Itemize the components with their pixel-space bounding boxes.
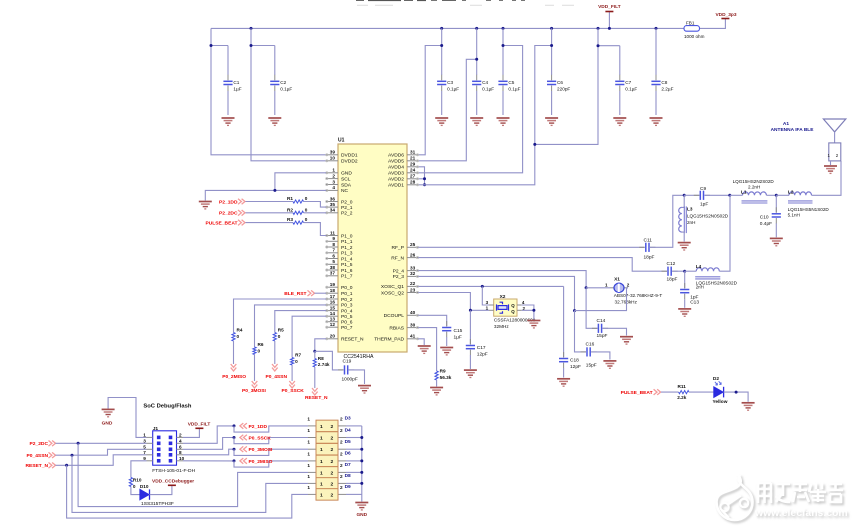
svg-text:R3: R3: [287, 217, 293, 222]
wire THERM_PAD to ground: [418, 339, 424, 345]
diode D10: [140, 489, 149, 499]
ground below LED: [742, 403, 755, 410]
svg-text:2: 2: [331, 481, 334, 487]
ground below C18: [557, 379, 570, 386]
svg-text:C6: C6: [557, 80, 563, 85]
svg-text:P0_5: P0_5: [341, 314, 353, 320]
svg-text:DVDD1: DVDD1: [341, 153, 358, 159]
svg-text:R7: R7: [295, 353, 301, 358]
svg-text:AVDD5: AVDD5: [388, 159, 404, 165]
svg-text:12pF: 12pF: [570, 364, 581, 370]
svg-text:NC: NC: [341, 188, 349, 194]
capacitor C2: [251, 45, 275, 47]
wire/node P0_3MOSI at J1 pin8: [183, 449, 234, 455]
svg-text:C15: C15: [454, 328, 463, 334]
svg-text:RBIAS: RBIAS: [389, 325, 404, 331]
svg-text:P1_3: P1_3: [341, 251, 353, 257]
svg-text:15pF: 15pF: [586, 363, 597, 369]
svg-text:R2: R2: [287, 207, 293, 212]
svg-text:33: 33: [410, 265, 416, 270]
svg-text:P2_2DC: P2_2DC: [219, 211, 238, 217]
wire RF_N: [418, 258, 667, 272]
svg-text:24: 24: [410, 168, 416, 173]
svg-text:2: 2: [331, 424, 334, 430]
resistor R8: [314, 351, 316, 358]
svg-text:5.1nH: 5.1nH: [788, 213, 800, 218]
svg-text:31: 31: [410, 150, 416, 155]
svg-text:L4: L4: [696, 264, 702, 269]
wire AVDD5 to C4: [418, 59, 476, 161]
wire antenna gnd pin: [830, 161, 832, 165]
inductor L4: [685, 270, 697, 272]
svg-text:12: 12: [330, 322, 336, 327]
svg-text:Yellow: Yellow: [713, 399, 728, 405]
svg-text:2: 2: [331, 492, 334, 498]
svg-text:0.1µF: 0.1µF: [447, 87, 459, 92]
svg-text:35: 35: [330, 202, 336, 207]
svg-text:P0_2MISO: P0_2MISO: [222, 374, 246, 380]
power symbol VDD_CCDebugger: [168, 484, 176, 486]
svg-text:D9: D9: [345, 484, 351, 490]
svg-text:VDD_FILT: VDD_FILT: [188, 422, 211, 428]
ground for GND/NC: [199, 202, 212, 209]
svg-text:1: 1: [320, 424, 323, 430]
svg-text:D4: D4: [345, 427, 351, 433]
svg-text:XOSC_Q2: XOSC_Q2: [381, 290, 404, 296]
diode pack D4: [307, 427, 351, 443]
svg-text:SDA: SDA: [341, 182, 352, 188]
svg-text:D3: D3: [345, 416, 351, 422]
svg-text:1: 1: [320, 470, 323, 476]
svg-text:PULSE_BEAT: PULSE_BEAT: [206, 221, 238, 227]
wire DVDD1 feed: [211, 28, 326, 154]
wire AVDD3 to C5: [418, 46, 522, 173]
svg-text:P2_4: P2_4: [393, 268, 405, 274]
svg-text:P0_4SSN: P0_4SSN: [27, 453, 49, 459]
svg-text:AVDD3: AVDD3: [388, 171, 404, 177]
svg-text:10: 10: [179, 456, 185, 461]
svg-text:25: 25: [410, 242, 416, 247]
svg-text:4: 4: [179, 439, 182, 444]
svg-text:38: 38: [330, 265, 336, 270]
svg-text:2: 2: [340, 485, 343, 490]
wire R1 to P2_1: [304, 202, 327, 208]
svg-text:1: 1: [332, 168, 335, 173]
resistor R9 on RBIAS: [418, 328, 436, 371]
wire AVDD1 to C6: [418, 46, 551, 185]
svg-text:18pF: 18pF: [667, 276, 678, 282]
svg-text:RESET_N: RESET_N: [305, 395, 328, 401]
ferrite bead FB1: [684, 26, 700, 32]
svg-text:C19: C19: [343, 359, 352, 365]
svg-text:1: 1: [307, 463, 310, 468]
svg-text:27: 27: [410, 174, 416, 179]
svg-text:VDD_CCDebugger: VDD_CCDebugger: [152, 478, 194, 484]
svg-text:2: 2: [340, 440, 343, 445]
svg-text:PULSE_BEAT: PULSE_BEAT: [621, 390, 653, 396]
svg-text:C16: C16: [586, 341, 595, 347]
ground below C2: [268, 118, 281, 125]
svg-text:23: 23: [410, 287, 416, 292]
svg-text:L3: L3: [687, 207, 693, 212]
ground below X2: [527, 321, 540, 328]
ground symbol debug GND: [102, 409, 115, 416]
svg-text:0: 0: [133, 484, 136, 489]
svg-text:P2_3: P2_3: [393, 274, 405, 280]
X2 pin stubs: [489, 305, 522, 310]
ground below C4: [470, 118, 483, 125]
ground below C10: [770, 238, 783, 245]
capacitor C16: [575, 311, 587, 352]
ground below C15: [440, 348, 453, 355]
svg-text:P1_2: P1_2: [341, 245, 353, 251]
capacitor C6: [551, 28, 553, 75]
svg-text:0.1µF: 0.1µF: [280, 87, 292, 92]
svg-text:L1: L1: [741, 189, 747, 194]
svg-text:2.2k: 2.2k: [677, 395, 687, 400]
svg-text:22: 22: [410, 281, 416, 286]
svg-text:P1_7: P1_7: [341, 274, 353, 280]
crystal X1: [586, 287, 610, 289]
svg-text:P0_4SSN: P0_4SSN: [266, 374, 288, 380]
ground below antenna: [824, 166, 837, 173]
svg-text:2: 2: [331, 470, 334, 476]
node RESET_N down label: [314, 367, 316, 388]
svg-text:DCOUPL: DCOUPL: [384, 313, 405, 319]
svg-text:P0_3MOSI: P0_3MOSI: [242, 388, 267, 394]
U1 right pins: [374, 150, 418, 343]
wire X2 pin4/pin2 tie: [522, 305, 534, 310]
svg-text:P1_5: P1_5: [341, 262, 353, 268]
capacitor C18: [563, 286, 565, 357]
svg-text:P0_6: P0_6: [341, 320, 353, 326]
svg-text:15pF: 15pF: [597, 333, 608, 339]
svg-text:21: 21: [410, 156, 416, 161]
svg-text:R9: R9: [440, 368, 446, 373]
svg-text:D2: D2: [713, 376, 719, 382]
svg-text:Q: Q: [511, 303, 515, 308]
svg-text:RESET_N: RESET_N: [341, 337, 364, 343]
wire D7 pin2 to gnd bus: [346, 471, 362, 473]
svg-text:30: 30: [410, 322, 416, 327]
wire D10 to VDD_CCDebugger: [150, 485, 172, 494]
svg-text:RESET_N: RESET_N: [25, 463, 48, 469]
svg-text:20: 20: [330, 334, 336, 339]
capacitor C19: [315, 351, 344, 370]
svg-text:1: 1: [320, 481, 323, 487]
resistor R2: [246, 212, 294, 214]
svg-text:1µF: 1µF: [454, 335, 462, 341]
svg-text:40: 40: [410, 310, 416, 315]
ground below L3: [678, 243, 691, 250]
svg-text:C3: C3: [447, 80, 453, 85]
diode pack D9: [307, 484, 351, 500]
wire RESET_N to D9: [67, 465, 308, 518]
resistor R10: [131, 461, 147, 478]
inductor L1: [730, 194, 743, 196]
svg-text:2.2nH: 2.2nH: [748, 184, 760, 189]
wire RESET_N to J1 pin7: [56, 455, 147, 466]
svg-text:2nH: 2nH: [687, 220, 695, 225]
svg-text:P0_0: P0_0: [341, 285, 353, 291]
wire D4 pin2 to gnd bus: [346, 437, 362, 439]
capacitor C8: [655, 28, 657, 75]
svg-text:1: 1: [307, 428, 310, 433]
wire AVDD4/AVDD2/AVDD1 tie: [418, 167, 424, 185]
svg-text:P2_2DC: P2_2DC: [30, 441, 49, 447]
svg-text:RF_N: RF_N: [391, 255, 404, 261]
svg-text:FTSH-105-01-F-DH: FTSH-105-01-F-DH: [152, 468, 195, 474]
svg-text:R11: R11: [678, 384, 687, 389]
svg-text:8: 8: [179, 450, 182, 455]
capacitor C13: [684, 271, 686, 288]
ground below R9: [430, 388, 443, 395]
wire D3 pin2 to gnd bus: [346, 425, 362, 427]
ground below C6: [545, 118, 558, 125]
resistor R1: [246, 201, 294, 203]
svg-text:VDD_FILT: VDD_FILT: [598, 4, 621, 10]
svg-text:0: 0: [305, 196, 308, 201]
wire/node P2_1DD at J1 pin4: [183, 426, 234, 443]
ground below C3: [435, 118, 448, 125]
ground for THERM_PAD: [418, 346, 431, 353]
svg-text:1000pF: 1000pF: [342, 377, 358, 383]
svg-text:P0_4: P0_4: [341, 308, 353, 314]
ground symbol jumper bus GND: [355, 503, 368, 510]
svg-text:D10: D10: [140, 484, 149, 489]
svg-text:1: 1: [143, 433, 146, 438]
svg-text:LQG15HS2N0S02D: LQG15HS2N0S02D: [687, 213, 729, 218]
resistor R7 / node P0_SSCK: [292, 316, 326, 357]
svg-text:32MHz: 32MHz: [494, 324, 510, 329]
wire LED to ground: [724, 392, 749, 402]
power symbol VDD_FILT at J1: [183, 428, 199, 437]
svg-text:P2_1DD: P2_1DD: [249, 424, 268, 430]
svg-text:0.1µF: 0.1µF: [482, 87, 494, 92]
svg-text:0: 0: [278, 334, 281, 339]
wire rail to VDD_3p3: [700, 19, 726, 29]
svg-text:4: 4: [332, 185, 335, 190]
svg-text:U1: U1: [338, 138, 345, 144]
svg-text:P2_2: P2_2: [341, 211, 353, 217]
wire X1 pin2 net: [627, 287, 629, 289]
svg-text:2: 2: [331, 447, 334, 453]
svg-text:C17: C17: [477, 345, 486, 351]
watermark chinese text: [760, 485, 845, 505]
svg-text:14: 14: [330, 311, 336, 316]
svg-text:R8: R8: [318, 356, 324, 361]
svg-text:12pF: 12pF: [477, 351, 488, 357]
wire XOSC_Q2: [418, 293, 489, 311]
svg-text:Q: Q: [511, 309, 515, 314]
svg-text:R4: R4: [237, 328, 243, 333]
svg-text:17: 17: [330, 294, 336, 299]
wire/node P0_2MISO at J1 pin10: [183, 460, 234, 462]
wire RESET_N pin20: [315, 339, 326, 352]
svg-text:1: 1: [307, 485, 310, 490]
ground below C13: [678, 309, 691, 316]
wire XOSC_Q1: [418, 285, 563, 287]
svg-text:29: 29: [410, 162, 416, 167]
svg-text:0.1µF: 0.1µF: [625, 87, 637, 92]
svg-text:XOSC_Q1: XOSC_Q1: [381, 284, 404, 290]
svg-text:1: 1: [307, 474, 310, 479]
svg-text:2.2µF: 2.2µF: [661, 87, 673, 92]
svg-text:P0_7: P0_7: [341, 325, 353, 331]
svg-text:C5: C5: [508, 80, 514, 85]
svg-text:X2: X2: [500, 294, 506, 300]
wire RF_P: [418, 246, 644, 248]
svg-text:2: 2: [332, 173, 335, 178]
wire DVDD2 feed: [251, 28, 326, 160]
wire P0_4SSN to D8: [72, 455, 308, 512]
wire BLE_RST to P0_1: [315, 292, 327, 294]
svg-text:7: 7: [332, 248, 335, 253]
svg-text:J1: J1: [153, 426, 159, 432]
svg-text:C9: C9: [700, 186, 706, 192]
svg-text:P2_1DD: P2_1DD: [219, 199, 238, 205]
svg-text:56.3k: 56.3k: [440, 375, 452, 380]
capacitor C10: [775, 195, 777, 212]
wire P2_2DC to D7: [78, 443, 308, 506]
svg-text:C4: C4: [482, 80, 488, 85]
svg-text:D7: D7: [345, 462, 351, 468]
svg-text:3: 3: [486, 300, 489, 305]
svg-text:FB1: FB1: [686, 21, 695, 26]
svg-text:C11: C11: [644, 237, 653, 243]
svg-text:P0_SSCK: P0_SSCK: [282, 388, 305, 394]
svg-text:0: 0: [305, 217, 308, 222]
svg-text:0: 0: [258, 348, 261, 353]
power symbol VDD_FILT top: [608, 12, 610, 29]
diode pack D7: [307, 462, 351, 478]
svg-text:C12: C12: [667, 261, 676, 267]
svg-text:2: 2: [340, 428, 343, 433]
power symbol VDD_3p3: [721, 18, 729, 20]
diode pack D6: [307, 451, 351, 467]
svg-text:2: 2: [340, 474, 343, 479]
svg-text:18: 18: [330, 288, 336, 293]
svg-text:P0_3: P0_3: [341, 303, 353, 309]
svg-text:P1_6: P1_6: [341, 268, 353, 274]
resistor R11: [661, 391, 679, 393]
connector J1 pins: [143, 433, 184, 463]
wire R3 to P1_0: [304, 223, 327, 236]
svg-text:8: 8: [332, 242, 335, 247]
diode pack D3: [307, 416, 351, 432]
svg-text:AVDD4: AVDD4: [388, 165, 404, 171]
svg-text:18pF: 18pF: [644, 254, 655, 260]
resistor R5 / node P0_4SSN: [275, 311, 326, 333]
svg-text:P2_1: P2_1: [341, 205, 353, 211]
svg-text:ABS07-32.768KHZ-9-T: ABS07-32.768KHZ-9-T: [614, 293, 663, 298]
svg-text:2: 2: [340, 416, 343, 421]
svg-text:10: 10: [330, 156, 336, 161]
svg-text:1: 1: [320, 435, 323, 441]
wire D9 pin2 to gnd bus: [346, 493, 362, 495]
ground below C5: [497, 118, 510, 125]
svg-text:15: 15: [330, 305, 336, 310]
svg-text:1: 1: [320, 492, 323, 498]
svg-text:2.74k: 2.74k: [318, 362, 330, 367]
svg-text:ANTENNA IFA BLE: ANTENNA IFA BLE: [771, 127, 815, 133]
svg-text:5: 5: [332, 259, 335, 264]
wire C11 to node: [650, 195, 684, 247]
svg-text:220pF: 220pF: [557, 87, 570, 92]
svg-text:P0_3MOSI: P0_3MOSI: [249, 447, 274, 453]
svg-text:D5: D5: [345, 439, 351, 445]
wire link to C7 branch: [535, 28, 598, 144]
svg-text:2: 2: [331, 435, 334, 441]
svg-text:16: 16: [330, 300, 336, 305]
svg-text:SCL: SCL: [341, 176, 351, 182]
wire D8 pin2 to gnd bus: [346, 482, 362, 484]
svg-text:C13: C13: [690, 300, 699, 306]
svg-text:C14: C14: [597, 318, 606, 324]
svg-text:2: 2: [179, 433, 182, 438]
inductor L3: [682, 195, 684, 207]
svg-text:BLE_RST: BLE_RST: [284, 291, 306, 297]
inductor L2: [776, 194, 789, 196]
svg-text:C18: C18: [570, 357, 579, 363]
svg-text:P1_1: P1_1: [341, 239, 353, 245]
capacitor C4: [476, 28, 478, 75]
svg-text:SoC Debug/Flash: SoC Debug/Flash: [143, 404, 191, 410]
svg-text:9: 9: [332, 236, 335, 241]
capacitor C5: [502, 28, 504, 75]
resistor R6 / node P0_3MOSI: [255, 305, 327, 347]
wire D6 pin2 to gnd bus: [346, 460, 362, 462]
ground below C14: [620, 337, 633, 344]
wire XOSC_Q1 to X2 pin3: [482, 286, 489, 305]
svg-text:L2: L2: [788, 189, 794, 194]
svg-text:C8: C8: [661, 80, 667, 85]
svg-text:X1: X1: [614, 277, 620, 283]
ground below C7: [613, 118, 626, 125]
svg-text:P0_SSCK: P0_SSCK: [249, 435, 272, 441]
svg-text:32: 32: [410, 271, 416, 276]
capacitor C14: [586, 288, 597, 329]
ground below C19: [358, 386, 371, 393]
svg-text:1: 1: [307, 440, 310, 445]
wire R2 to P2_2: [304, 212, 327, 214]
svg-text:R1: R1: [287, 196, 293, 201]
svg-text:C1: C1: [233, 80, 239, 85]
wire D5 pin2 to gnd bus: [346, 448, 362, 450]
svg-text:C10: C10: [760, 214, 769, 220]
svg-text:2: 2: [340, 463, 343, 468]
svg-text:1: 1: [320, 459, 323, 465]
svg-text:LQG15HS5N1S02D: LQG15HS5N1S02D: [788, 207, 830, 212]
wire GND to J1 pin1: [108, 398, 146, 438]
svg-text:0.4pF: 0.4pF: [760, 221, 772, 227]
capacitor C15 on DCOUPL: [418, 315, 446, 326]
svg-text:6: 6: [332, 253, 335, 258]
wire VDD_FILT top rail: [211, 27, 684, 29]
wire P2_4 to X1 pin1: [418, 271, 586, 288]
diode pack D8: [307, 473, 351, 489]
svg-text:LQG15HS2N2S02D: LQG15HS2N2S02D: [733, 179, 775, 184]
junction dots on rail: [250, 27, 253, 30]
svg-text:1pF: 1pF: [690, 294, 698, 300]
IC U1 CC2541RHA SoC body: [338, 144, 407, 352]
svg-text:28: 28: [410, 180, 416, 185]
cropped title text: [356, 0, 525, 1]
diode D2 LED: [714, 387, 723, 398]
capacitor C1: [211, 45, 228, 47]
svg-text:www.elecfans.com: www.elecfans.com: [754, 508, 848, 519]
svg-text:D8: D8: [345, 473, 351, 479]
